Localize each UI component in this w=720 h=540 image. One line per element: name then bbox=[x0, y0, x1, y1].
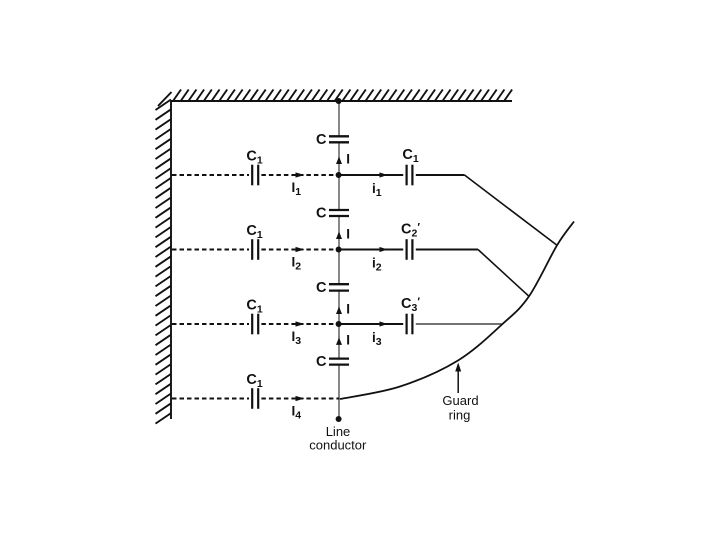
svg-text:I: I bbox=[346, 227, 350, 242]
svg-text:conductor: conductor bbox=[309, 437, 367, 452]
svg-text:C: C bbox=[316, 132, 327, 148]
svg-text:C: C bbox=[316, 206, 327, 222]
svg-text:I: I bbox=[346, 152, 350, 167]
svg-text:ring: ring bbox=[449, 408, 471, 423]
svg-text:Guard: Guard bbox=[442, 393, 478, 408]
svg-text:I: I bbox=[346, 302, 350, 317]
svg-text:C: C bbox=[316, 280, 327, 296]
svg-text:I: I bbox=[346, 333, 350, 348]
svg-text:C: C bbox=[316, 354, 327, 370]
